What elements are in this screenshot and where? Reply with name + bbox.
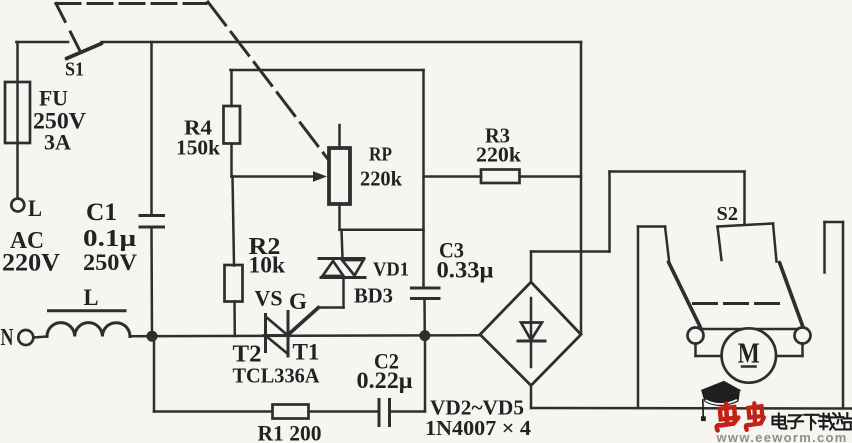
svg-text:S2: S2 [717,203,739,225]
svg-text:0.22μ: 0.22μ [357,368,413,393]
svg-text:0.1μ: 0.1μ [83,226,136,252]
svg-text:0.33μ: 0.33μ [437,258,494,283]
svg-text:BD3: BD3 [354,284,393,308]
svg-text:FU: FU [39,86,68,111]
svg-text:N: N [1,325,14,351]
svg-text:C1: C1 [86,199,117,226]
svg-text:250V: 250V [83,250,137,276]
svg-text:R1 200: R1 200 [258,421,322,443]
svg-text:M: M [738,339,760,370]
svg-text:G: G [289,289,307,314]
svg-text:L: L [28,196,42,221]
svg-text:220V: 220V [2,250,60,277]
svg-text:1N4007 × 4: 1N4007 × 4 [425,416,531,440]
svg-text:www.eeworm.com: www.eeworm.com [716,430,848,443]
svg-text:VS: VS [255,286,283,311]
svg-text:150k: 150k [176,136,220,160]
svg-text:10k: 10k [249,253,286,278]
svg-text:RP: RP [369,144,392,166]
svg-text:VD1: VD1 [373,259,409,281]
svg-text:3A: 3A [44,130,71,155]
svg-text:TCL336A: TCL336A [233,364,321,388]
svg-text:220k: 220k [360,167,402,191]
svg-text:T1: T1 [293,340,320,365]
svg-text:S1: S1 [65,59,84,81]
svg-text:L: L [84,285,99,310]
svg-text:220k: 220k [476,143,521,167]
